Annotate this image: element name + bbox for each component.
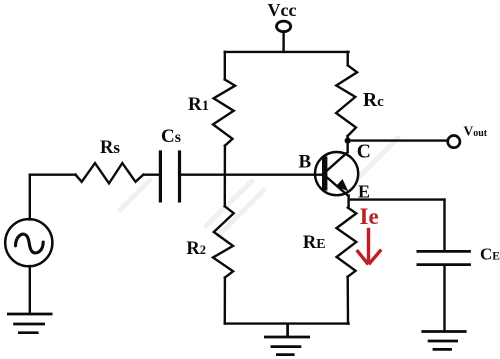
wire Vout: [348, 139, 448, 141]
wire CE top: [443, 200, 445, 251]
wire emitter node horizontal: [349, 198, 445, 200]
ground source: [7, 314, 53, 333]
wire right branch top: [347, 52, 349, 65]
svg-text:Cs: Cs: [161, 126, 181, 147]
terminal Vout: [448, 136, 460, 148]
svg-text:R1: R1: [188, 94, 209, 115]
transistor Q1 circle: [315, 152, 358, 195]
resistor RE: [337, 208, 357, 277]
wire source stem upper: [29, 175, 31, 220]
svg-text:RE: RE: [303, 233, 326, 253]
capacitor CE: [417, 251, 471, 264]
node C junction dot: [345, 138, 351, 144]
wire base: [180, 173, 325, 175]
transistor Q1 emitter arrowhead: [336, 179, 349, 191]
svg-text:B: B: [299, 151, 312, 172]
svg-text:R2: R2: [186, 239, 206, 259]
wire source top: [30, 173, 76, 175]
svg-text:E: E: [358, 181, 370, 201]
wire top rail: [225, 51, 349, 53]
svg-text:Rs: Rs: [100, 138, 120, 158]
transistor Q1 emitter stroke: [327, 177, 350, 197]
wire R2 to bottom rail: [224, 278, 226, 324]
wire source stem lower: [29, 266, 31, 314]
current arrow Ie: [357, 228, 382, 265]
terminal Vcc: [277, 21, 291, 32]
svg-text:Ie: Ie: [360, 204, 379, 229]
ground CE: [421, 332, 466, 350]
transistor Q1 collector stroke: [327, 152, 349, 171]
ground center: [264, 324, 310, 355]
svg-text:C: C: [357, 142, 371, 163]
wire bottom rail: [225, 322, 349, 324]
svg-text:CE: CE: [480, 245, 500, 264]
source V1 sine: [16, 234, 44, 253]
wire Rc to collector node: [346, 136, 349, 152]
wire Rs to Cs: [143, 173, 160, 175]
resistor Rs: [76, 163, 144, 183]
transistor Q1 base bar: [322, 157, 327, 191]
wire CE bottom: [443, 265, 445, 331]
wire Vcc stem: [282, 33, 284, 52]
svg-text:Rc: Rc: [363, 90, 384, 111]
wire R1 to R2: [224, 146, 226, 207]
wire left branch upper: [224, 52, 226, 80]
wire emitter to RE: [347, 196, 349, 208]
capacitor Cs: [160, 150, 179, 202]
resistor R1: [213, 80, 235, 146]
source V1 circle: [5, 219, 52, 266]
watermark streaks: [120, 138, 398, 236]
wire RE to bottom rail: [347, 277, 350, 324]
resistor R2: [213, 206, 234, 277]
resistor Rc: [336, 65, 357, 136]
svg-text:Vout: Vout: [464, 123, 488, 139]
svg-text:Vcc: Vcc: [268, 0, 297, 20]
